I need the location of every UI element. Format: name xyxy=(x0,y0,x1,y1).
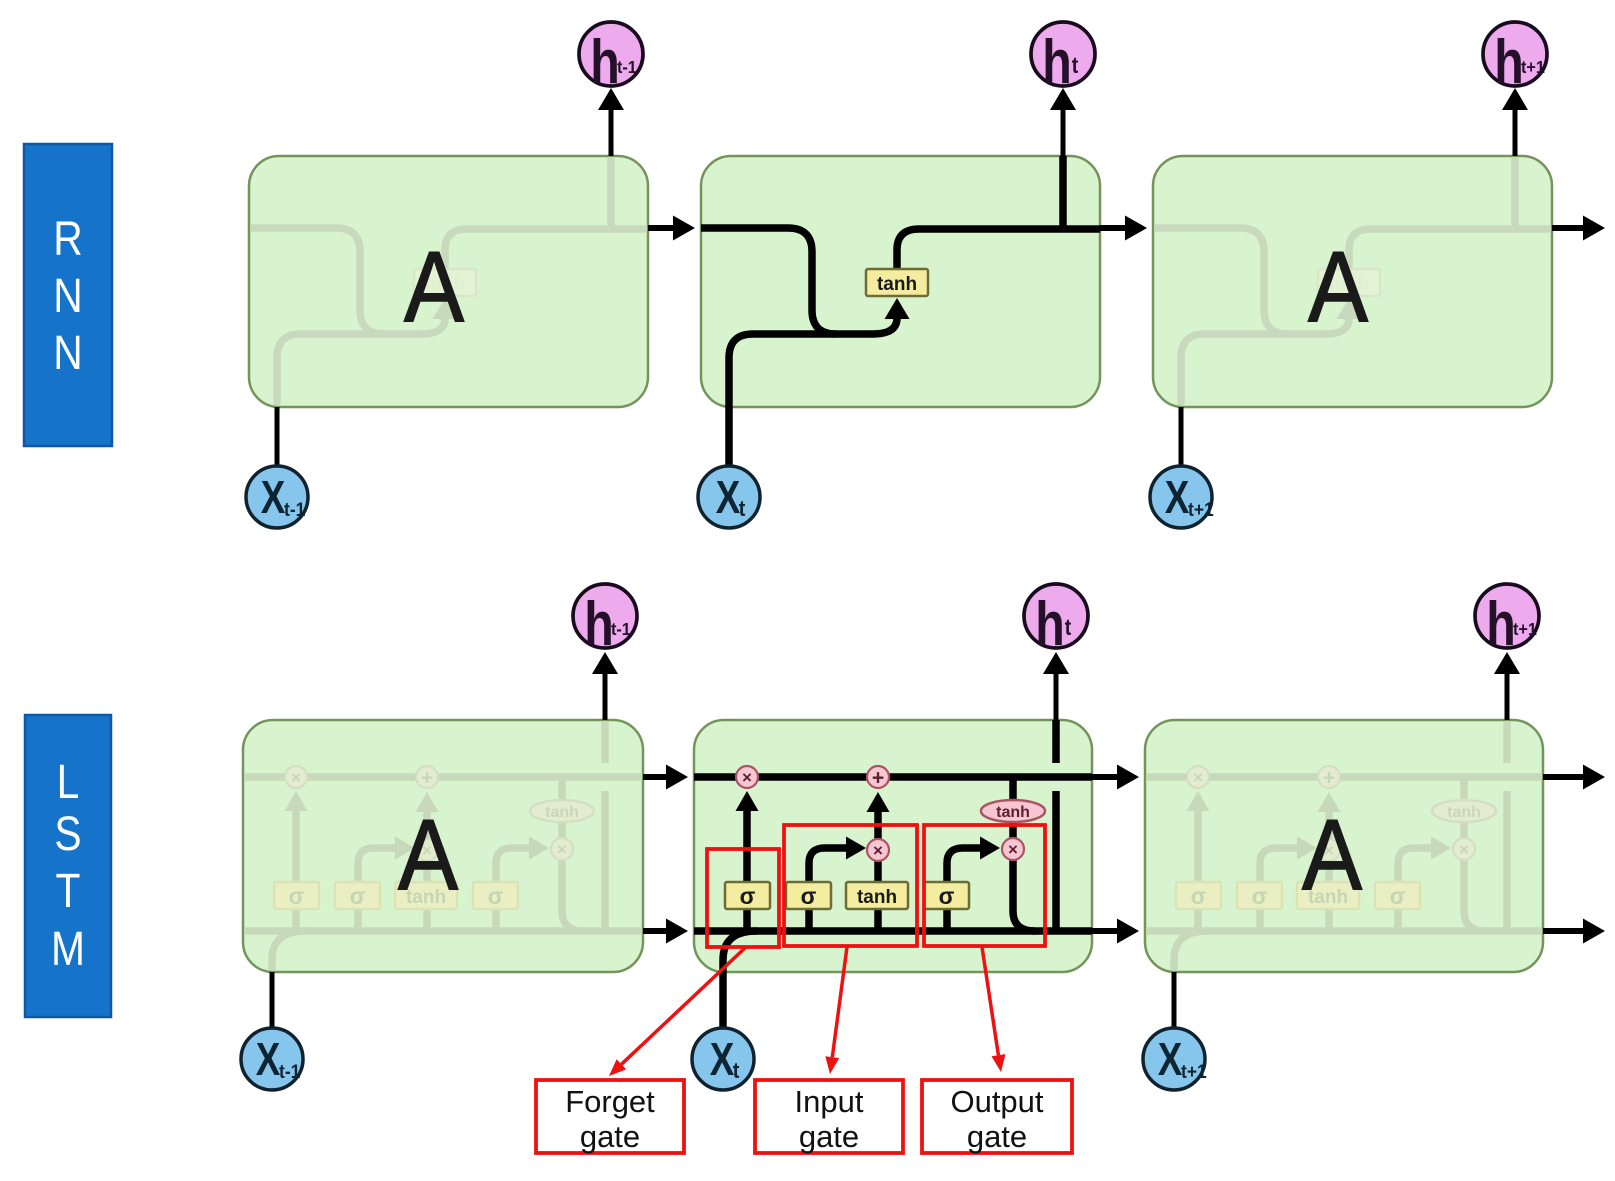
svg-text:Output: Output xyxy=(950,1084,1043,1119)
svg-text:h: h xyxy=(1486,589,1516,658)
svg-text:A: A xyxy=(1308,232,1369,343)
LSTM row label box xyxy=(25,715,111,1017)
h_t+1 output circle (RNN) xyxy=(1483,22,1547,86)
svg-text:gate: gate xyxy=(799,1119,859,1154)
svg-text:t: t xyxy=(733,1059,740,1083)
wire+arrow: h output RNN t xyxy=(1061,110,1066,156)
svg-text:X: X xyxy=(716,471,741,523)
red arrow to Input gate label xyxy=(832,947,847,1057)
svg-text:A: A xyxy=(398,800,459,911)
RNN middle cell black wiring xyxy=(701,156,1100,466)
h_t output circle (LSTM) xyxy=(1024,584,1088,648)
x_t input circle (RNN) xyxy=(698,466,760,528)
svg-text:A: A xyxy=(404,232,465,343)
wire+arrow: h output LSTM t+1 xyxy=(1505,674,1510,720)
svg-text:t+1: t+1 xyxy=(1188,498,1214,520)
svg-text:S: S xyxy=(54,808,81,861)
svg-text:N: N xyxy=(53,270,82,323)
ghost wiring inside right LSTM cell xyxy=(1145,720,1543,1028)
wire: x input stem LSTM t+1 xyxy=(1172,972,1177,1028)
RNN cell box t+1 xyxy=(1153,156,1552,407)
svg-text:t+1: t+1 xyxy=(1521,57,1545,77)
svg-text:h: h xyxy=(1042,27,1072,96)
LSTM cell box t-1 xyxy=(243,720,643,972)
svg-text:t: t xyxy=(1065,615,1072,641)
svg-text:T: T xyxy=(56,865,81,918)
wire+arrow: h output RNN t-1 xyxy=(609,110,614,156)
wire+arrow: h output LSTM t xyxy=(1054,674,1059,720)
LSTM cell box border t-1 xyxy=(243,720,643,972)
svg-text:t+1: t+1 xyxy=(1513,619,1537,639)
RNN cell box t-1 xyxy=(249,156,648,407)
wire: x input stem LSTM t-1 xyxy=(270,972,275,1028)
svg-text:gate: gate xyxy=(580,1119,640,1154)
x_t+1 input circle (LSTM) xyxy=(1143,1028,1205,1090)
svg-text:X: X xyxy=(261,471,286,523)
red rect: forget gate region xyxy=(707,849,779,947)
LSTM cell box border t xyxy=(694,720,1092,972)
LSTM cell box border t+1 xyxy=(1145,720,1543,972)
arrow out of RNN cell t+1 xyxy=(1552,225,1586,231)
svg-text:gate: gate xyxy=(967,1119,1027,1154)
red arrow to Forget gate label xyxy=(621,947,746,1064)
Output gate label box xyxy=(922,1080,1072,1153)
ghost wiring inside left LSTM cell xyxy=(243,720,641,1028)
svg-text:Input: Input xyxy=(795,1084,864,1119)
svg-text:A: A xyxy=(1302,800,1363,911)
wire+arrow: h output LSTM t-1 xyxy=(603,674,608,720)
arrows out of LSTM cell t+1 xyxy=(1543,774,1586,780)
svg-text:h: h xyxy=(590,27,620,96)
LSTM cell box t xyxy=(694,720,1092,972)
svg-text:h: h xyxy=(1035,589,1065,658)
LSTM cell box t+1 xyxy=(1145,720,1543,972)
x_t+1 input circle (RNN) xyxy=(1150,466,1212,528)
LSTM middle cell black wiring xyxy=(694,720,1092,1028)
svg-text:L: L xyxy=(57,756,80,809)
svg-text:t-1: t-1 xyxy=(611,619,631,639)
arrows out of LSTM cell t xyxy=(1092,774,1125,780)
wire+arrow: h output RNN t+1 xyxy=(1513,110,1518,156)
svg-text:t: t xyxy=(1072,53,1079,79)
svg-text:X: X xyxy=(710,1033,735,1085)
RNN row label box xyxy=(24,144,112,446)
RNN cell box t xyxy=(701,156,1100,407)
wire: x input stem RNN t+1 xyxy=(1179,407,1184,466)
RNN cell box border t-1 xyxy=(249,156,648,407)
svg-text:X: X xyxy=(1158,1033,1183,1085)
svg-text:t: t xyxy=(739,497,746,521)
arrow out of RNN cell t xyxy=(1100,225,1133,231)
RNN cell box border t xyxy=(701,156,1100,407)
x_t input circle (LSTM) xyxy=(692,1028,754,1090)
svg-text:Forget: Forget xyxy=(565,1084,655,1119)
svg-text:t+1: t+1 xyxy=(1181,1060,1207,1082)
svg-text:N: N xyxy=(53,327,82,380)
svg-text:t-1: t-1 xyxy=(284,498,305,520)
h_t-1 output circle (LSTM) xyxy=(573,584,637,648)
ghost wiring inside right RNN cell xyxy=(1153,156,1552,466)
wire: x input stem RNN t-1 xyxy=(275,407,280,466)
x_t-1 input circle (LSTM) xyxy=(241,1028,303,1090)
svg-text:X: X xyxy=(256,1033,281,1085)
arrow out of RNN cell t-1 xyxy=(648,225,681,231)
red arrow to Output gate label xyxy=(982,947,998,1055)
Forget gate label box xyxy=(536,1080,684,1153)
h_t output circle (RNN) xyxy=(1031,22,1095,86)
svg-text:t-1: t-1 xyxy=(617,57,637,77)
arrows out of LSTM cell t-1 xyxy=(643,774,674,780)
RNN cell box border t+1 xyxy=(1153,156,1552,407)
h_t-1 output circle (RNN) xyxy=(579,22,643,86)
svg-text:h: h xyxy=(1494,27,1524,96)
svg-text:X: X xyxy=(1165,471,1190,523)
svg-text:t-1: t-1 xyxy=(279,1060,300,1082)
ghost wiring inside left RNN cell xyxy=(249,156,648,466)
red rect: input gate region xyxy=(784,825,917,946)
h_t+1 output circle (LSTM) xyxy=(1475,584,1539,648)
Input gate label box xyxy=(755,1080,903,1153)
x_t-1 input circle (RNN) xyxy=(246,466,308,528)
svg-text:R: R xyxy=(53,213,82,266)
svg-text:h: h xyxy=(584,589,614,658)
red rect: output gate region xyxy=(924,825,1045,946)
svg-text:M: M xyxy=(51,923,85,976)
